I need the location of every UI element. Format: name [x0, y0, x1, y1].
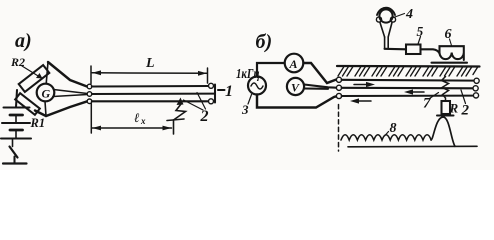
- svg-text:2: 2: [200, 108, 209, 125]
- svg-text:V: V: [291, 81, 300, 95]
- switch blade: [10, 147, 18, 158]
- label 1 leader dash: [218, 89, 225, 91]
- svg-text:2: 2: [461, 103, 470, 119]
- battery plate long 1: [4, 106, 30, 108]
- svg-text:G: G: [42, 87, 51, 101]
- battery plate short 1: [10, 114, 23, 117]
- wire generator bottom to junction: [257, 95, 336, 108]
- battery stub 2: [15, 130, 17, 139]
- wire bridge north vertex to top terminal: [48, 62, 87, 87]
- wire cord to detector 5: [385, 48, 406, 51]
- battery plate long 3: [1, 137, 31, 139]
- label 7 leader: [430, 93, 439, 99]
- wire G bottom to S vertex: [45, 101, 46, 116]
- node terminal b top right: [474, 78, 479, 83]
- ceiling surface line: [337, 65, 480, 68]
- battery plate short 2: [10, 129, 23, 132]
- wire voltmeter leads to junction: [304, 85, 336, 88]
- headphone 4 earcap right: [390, 17, 395, 22]
- dimension L right tick: [207, 68, 209, 83]
- node terminal middle left: [87, 92, 92, 97]
- arrow of adjustable R2: [22, 66, 43, 79]
- label 5 leader: [418, 37, 421, 45]
- waveform baseline: [348, 145, 477, 148]
- svg-text:а): а): [15, 30, 32, 52]
- svg-text:x: x: [140, 116, 146, 126]
- label 3 leader: [248, 95, 252, 105]
- svg-text:R: R: [449, 101, 459, 116]
- svg-text:6: 6: [445, 27, 452, 42]
- coupling loop 6: [440, 46, 464, 60]
- probe zigzag 7: [442, 77, 449, 102]
- dimension lx line with arrows: [92, 126, 172, 131]
- pulse peak: [431, 117, 455, 146]
- svg-text:L: L: [145, 56, 155, 71]
- headphone 4 earcap left: [376, 17, 381, 22]
- wire line b top: [342, 79, 474, 82]
- generator G1: [248, 77, 266, 95]
- wire generator top to ammeter: [257, 63, 285, 77]
- dashed reference line: [338, 105, 340, 152]
- node terminal bottom right: [209, 99, 214, 104]
- svg-text:7: 7: [423, 96, 431, 112]
- svg-text:б): б): [256, 31, 273, 53]
- node terminal bottom left: [87, 99, 92, 104]
- label 2 leader lines: [184, 93, 206, 111]
- node terminal b top left: [336, 77, 341, 82]
- battery stub 1: [15, 115, 17, 123]
- svg-text:R1: R1: [30, 116, 46, 130]
- ammeter A: [285, 54, 304, 73]
- svg-text:3: 3: [241, 102, 249, 117]
- label 4 leader: [394, 14, 405, 18]
- ceiling hatching: [338, 67, 478, 77]
- slider short-circuit bridge 2: [167, 98, 186, 135]
- node terminal b middle left: [336, 85, 341, 90]
- dimension L line with arrows: [92, 70, 207, 75]
- wire line a top: [92, 85, 209, 88]
- svg-text:8: 8: [390, 121, 397, 136]
- wire battery to switch: [12, 139, 14, 147]
- detector block 5: [406, 45, 421, 55]
- label 2b leader: [461, 90, 466, 104]
- node terminal b bottom right: [473, 93, 478, 98]
- wire far-end bracket 1: [214, 85, 216, 103]
- generator sine symbol: [251, 83, 263, 89]
- battery plate long 2: [2, 122, 30, 124]
- dimension L left tick: [90, 66, 92, 84]
- wire N vertex to G top: [46, 62, 48, 84]
- svg-text:A: A: [289, 57, 298, 71]
- headphone cord: [380, 23, 385, 38]
- svg-text:4: 4: [405, 7, 413, 22]
- galvanometer G: [37, 84, 55, 102]
- wire west vertex to battery: [16, 90, 17, 107]
- wire bridge south vertex to bottom terminal: [35, 101, 87, 116]
- label 6 leader: [450, 39, 452, 46]
- wire line a middle: [92, 93, 215, 95]
- node terminal b middle right: [473, 86, 478, 91]
- resistor R1: [15, 93, 40, 115]
- resistor R2: [19, 65, 50, 92]
- switch terminal stub: [13, 157, 15, 164]
- wire line a bottom: [92, 100, 209, 102]
- node terminal top left: [87, 84, 92, 89]
- node terminal top right: [209, 83, 214, 88]
- wire G to middle terminal (upper lead): [54, 90, 88, 94]
- resistor R load: [442, 101, 451, 114]
- label 8 leader: [385, 132, 389, 137]
- wire detector to coupling loop 6: [421, 49, 440, 53]
- resistor R base: [437, 114, 454, 116]
- arrow wave direction left (bottom): [350, 98, 371, 103]
- svg-text:ℓ: ℓ: [134, 110, 140, 125]
- switch base: [3, 162, 27, 164]
- svg-text:5: 5: [417, 24, 424, 39]
- dimension lx left tick: [90, 104, 92, 134]
- wire line b middle: [342, 87, 473, 90]
- headphone 4 body: [379, 9, 392, 22]
- voltmeter V: [287, 78, 304, 95]
- svg-text:1: 1: [225, 83, 233, 100]
- wire G to middle terminal (lower lead): [53, 95, 87, 97]
- wire line b bottom: [342, 95, 474, 97]
- coupling loop base line: [432, 62, 468, 64]
- arrow wave direction left (middle): [404, 89, 424, 94]
- headphone 4 headband: [377, 8, 395, 15]
- arrow wave direction right: [354, 82, 375, 87]
- wire ammeter to junction: [304, 63, 337, 83]
- standing wave ripples 8: [341, 135, 431, 140]
- node terminal b bottom left: [336, 93, 341, 98]
